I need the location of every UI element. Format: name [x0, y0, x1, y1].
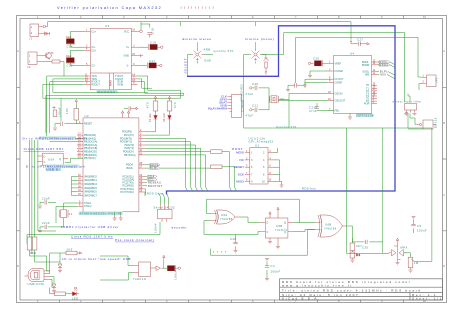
resistor R4 — [146, 96, 158, 111]
global label BLML2 — [150, 167, 161, 170]
svg-text:SCK: SCK — [238, 173, 245, 177]
global label SDA — [148, 175, 158, 178]
capacitor C23 — [286, 82, 328, 92]
svg-text:GND: GND — [204, 59, 211, 63]
svg-text:100nF: 100nF — [417, 229, 427, 233]
capacitor C4 — [265, 258, 281, 281]
global label SCL — [148, 178, 158, 181]
svg-text:RDS Data: RDS Data — [147, 192, 163, 196]
svg-text:detect input filter: detect input filter — [393, 99, 422, 103]
svg-text:1K to inform host "low speed": 1K to inform host "low speed" USB — [62, 257, 131, 261]
wire loopback R2 — [43, 79, 152, 98]
svg-text:100uF: 100uF — [174, 270, 178, 280]
labels U1 left — [234, 151, 245, 184]
svg-text:C20: C20 — [252, 82, 258, 86]
gate U8 — [133, 262, 164, 281]
wires bus area — [262, 33, 422, 102]
svg-text:RX LED: RX LED — [163, 113, 166, 122]
svg-text:HOST: HOST — [232, 147, 243, 151]
svg-text:PLL clock (internal): PLL clock (internal) — [115, 238, 154, 242]
global label RDDA — [377, 64, 390, 67]
green loop synchro — [244, 55, 432, 129]
transistor T2 — [264, 55, 269, 75]
resistor R16 — [408, 257, 419, 272]
svg-text:USB D-: USB D- — [46, 168, 60, 172]
svg-text:TX LED: TX LED — [149, 113, 152, 122]
svg-text:47nF: 47nF — [309, 109, 317, 113]
crystal X2 — [269, 93, 289, 128]
svg-text:(PA1)RBC1: (PA1)RBC1 — [84, 179, 97, 182]
wires gate — [100, 256, 134, 280]
svg-text:C2-: C2- — [91, 65, 95, 68]
connector J1 — [29, 24, 43, 41]
global label BOOTINT — [148, 185, 163, 188]
svg-text:(PA2)RBC4: (PA2)RBC4 — [84, 183, 97, 186]
resistor R9 led — [50, 288, 73, 296]
vcc arrows above U2 — [121, 111, 123, 118]
capacitor C30 — [352, 238, 382, 250]
svg-text:U2: U2 — [85, 114, 89, 118]
wires mpx — [347, 128, 432, 261]
svg-text:1K5: 1K5 — [67, 248, 73, 252]
svg-text:Sheet: 1/1: Sheet: 1/1 — [412, 297, 443, 301]
svg-text:1: 1 — [31, 25, 33, 29]
mpx switch Q3 — [389, 238, 407, 265]
svg-text:Verifier polarisation Capa MAX: Verifier polarisation Capa MAX232 — [57, 5, 162, 10]
ground mid — [303, 83, 307, 87]
svg-text:C5: C5 — [417, 224, 421, 228]
wire U6B out — [348, 226, 353, 242]
svg-text:GPT/2138: GPT/2138 — [357, 113, 375, 117]
svg-text:C4: C4 — [271, 264, 275, 268]
svg-text:SYNCHRO: SYNCHRO — [239, 84, 243, 101]
zener D5 — [52, 283, 56, 293]
svg-text:U4: U4 — [350, 52, 354, 56]
svg-text:V+: V+ — [126, 46, 130, 49]
svg-text:C27: C27 — [357, 38, 363, 42]
svg-text:C30: C30 — [362, 246, 368, 250]
ground U4 left — [348, 115, 352, 119]
svg-text:Q: Q — [284, 231, 286, 234]
svg-text:C14: C14 — [67, 45, 73, 49]
svg-text:C16: C16 — [150, 41, 156, 45]
power flag P1 — [43, 25, 48, 27]
green loop bottom — [211, 230, 315, 256]
op IC U4 coder — [328, 52, 377, 118]
capacitor C21 — [246, 104, 270, 118]
svg-text:decoder: decoder — [172, 226, 188, 230]
svg-text:USB(CON): USB(CON) — [28, 282, 45, 286]
svg-text:2: 2 — [31, 31, 33, 35]
svg-text:RESET: RESET — [234, 165, 244, 169]
small part near reset — [53, 106, 56, 109]
svg-text:RESET: RESET — [84, 123, 93, 126]
svg-text:Externe stereo: Externe stereo — [183, 37, 212, 41]
capacitor C11 — [38, 197, 56, 209]
svg-text:(PA4)RBC5: (PA4)RBC5 — [84, 187, 97, 190]
svg-text:Synchro 57K: Synchro 57K — [276, 125, 297, 129]
vcc arrow U8 — [163, 255, 165, 268]
svg-text:OSCOUT: OSCOUT — [335, 100, 346, 103]
capacitor C10 — [124, 106, 138, 110]
svg-text:(PA0)RBC0: (PA0)RBC0 — [84, 175, 97, 178]
svg-text:XTAL2: XTAL2 — [84, 205, 92, 208]
svg-text:BODR: BODR — [362, 64, 369, 67]
usb connector — [25, 269, 50, 287]
svg-text:!!!!!!!!!!: !!!!!!!!!! — [181, 5, 217, 10]
svg-text:ARB: ARB — [204, 48, 211, 52]
svg-text:BOOTINT: BOOTINT — [148, 185, 163, 188]
led RX — [145, 111, 171, 135]
svg-text:U6B: U6B — [325, 223, 332, 227]
global label RESEAU — [148, 182, 161, 185]
capacitor C20 — [246, 82, 270, 110]
bus entries right — [387, 62, 395, 79]
svg-text:C: C — [443, 193, 445, 197]
svg-text:(PA7)RBC7: (PA7)RBC7 — [84, 194, 97, 197]
svg-text:C28: C28 — [230, 237, 236, 241]
svg-text:Clock RDS 1187.5 Hz: Clock RDS 1187.5 Hz — [71, 234, 113, 238]
svg-text:470: 470 — [146, 102, 150, 108]
U1 right wires — [273, 148, 282, 184]
svg-text:FILTER: FILTER — [335, 70, 344, 73]
svg-text:BD135: BD135 — [434, 117, 438, 128]
connector U1 isp — [245, 144, 273, 185]
svg-text:D: D — [443, 264, 445, 268]
svg-text:BLML: BLML — [127, 167, 134, 170]
ground GND U3 — [137, 54, 143, 57]
capacitor C27 top — [353, 38, 370, 47]
no connect marks — [213, 251, 227, 254]
svg-text:1M: 1M — [414, 261, 419, 265]
svg-text:C: C — [267, 231, 269, 234]
capacitor C16 — [137, 41, 163, 51]
connector jack internal — [249, 42, 262, 64]
led TX — [145, 111, 157, 132]
wires U4 left — [278, 71, 328, 101]
svg-text:U1: U1 — [255, 144, 259, 148]
filter block FL1 — [405, 104, 417, 113]
capacitor C12 — [38, 221, 56, 233]
svg-text:SELECT: SELECT — [184, 58, 188, 74]
wire long mid rails — [43, 90, 184, 133]
svg-text:10K: 10K — [65, 108, 69, 114]
svg-text:U5B: U5B — [276, 224, 283, 228]
svg-text:D4: D4 — [356, 253, 360, 257]
svg-text:C15: C15 — [67, 64, 73, 68]
capacitor C13 — [53, 122, 76, 131]
usb wires — [30, 253, 61, 288]
wires U2 PA rows — [72, 177, 78, 196]
diode D4 — [350, 251, 360, 263]
svg-text:C26: C26 — [313, 57, 319, 61]
resistor R6 — [211, 150, 223, 154]
svg-text:10uF: 10uF — [66, 55, 72, 58]
capacitor C19 — [309, 103, 319, 113]
svg-text:100nF: 100nF — [271, 270, 281, 274]
global label RDCL — [377, 61, 390, 64]
blue labels CLK bundle — [208, 95, 228, 111]
svg-text:RDS bus: RDS bus — [302, 187, 316, 191]
svg-text:MAX: MAX — [108, 80, 112, 86]
svg-text:FBL: FBL — [335, 110, 340, 113]
transistor T3 — [41, 53, 51, 60]
svg-text:V-: V- — [127, 64, 130, 67]
grounds under U2 — [113, 215, 117, 220]
svg-text:10uF: 10uF — [66, 36, 72, 39]
svg-text:R2IN: R2IN — [118, 83, 124, 86]
svg-text:74AC86: 74AC86 — [324, 227, 337, 231]
svg-text:ARI: ARI — [365, 74, 369, 77]
svg-text:GPI_ATmega32: GPI_ATmega32 — [249, 139, 274, 143]
crystal X1 — [56, 203, 77, 227]
svg-text:VREF: VREF — [335, 62, 342, 65]
svg-text:JP1: JP1 — [435, 77, 439, 83]
svg-text:47pF: 47pF — [246, 114, 254, 118]
svg-text:100nF: 100nF — [154, 223, 158, 233]
title block — [280, 279, 443, 300]
svg-text:74AC86: 74AC86 — [220, 217, 233, 221]
global label RDDA2 — [150, 164, 161, 167]
svg-text:16MHz crystal for USB driver: 16MHz crystal for USB driver — [61, 225, 119, 229]
RDS bus — [167, 26, 396, 195]
wires U2 lower right to labels — [145, 177, 147, 197]
svg-text:MISO: MISO — [236, 179, 245, 183]
svg-text:VCC: VCC — [124, 30, 129, 33]
svg-text:D: D — [267, 222, 269, 225]
svg-text:MXI: MXI — [381, 74, 387, 77]
resistor R2 — [30, 140, 56, 262]
capacitor C32 — [411, 216, 427, 233]
svg-text:68R: 68R — [30, 251, 36, 255]
svg-text:KiCad E.D.A.: KiCad E.D.A. — [282, 297, 321, 301]
svg-text:J2: J2 — [27, 65, 31, 69]
svg-text:MAX232: MAX232 — [98, 90, 116, 94]
svg-text:22pF: 22pF — [42, 221, 50, 225]
svg-text:MOSI: MOSI — [236, 151, 244, 155]
resistor R5 — [167, 96, 177, 111]
svg-text:U6A: U6A — [221, 213, 228, 217]
resistor R3 reset pullup — [65, 99, 83, 124]
resistor R7 — [160, 167, 211, 169]
capacitor C15 — [66, 50, 84, 67]
svg-text:(PA6)RBC6: (PA6)RBC6 — [84, 191, 97, 194]
power vdd — [350, 40, 353, 44]
svg-text:D+ to INPUT(200k(comp)) (ph D+: D+ to INPUT(200k(comp)) (ph D+ — [23, 136, 89, 140]
capacitor C17 — [137, 59, 162, 69]
wire row R1 — [145, 151, 211, 153]
svg-text:47pF: 47pF — [246, 92, 254, 96]
wires U5B — [204, 199, 315, 234]
svg-text:C17: C17 — [149, 59, 155, 63]
svg-text:470: 470 — [173, 102, 177, 108]
capacitor C33 polarized — [164, 265, 181, 280]
svg-text:22pF: 22pF — [42, 197, 50, 201]
wire top long — [48, 22, 351, 40]
svg-text:X2: X2 — [280, 97, 284, 101]
wire T1OUT right — [137, 76, 180, 90]
op IC U3 MAX232 — [84, 24, 137, 94]
global label MXI — [377, 74, 386, 77]
wire R1IN right — [137, 82, 183, 94]
micro U2 — [77, 114, 145, 215]
jumper JP1 — [422, 75, 439, 87]
transistor Q2 right — [415, 120, 436, 129]
svg-text:D: D — [44, 156, 46, 159]
svg-text:OSCIN: OSCIN — [335, 92, 343, 95]
flipflop U5B — [260, 207, 293, 249]
wire RXD to U2 — [50, 82, 85, 142]
resistor R14 — [350, 242, 362, 251]
svg-text:Interne (mono): Interne (mono) — [245, 37, 274, 41]
svg-text:X1: X1 — [69, 212, 73, 216]
svg-text:GND: GND — [124, 55, 130, 58]
svg-text:synchro 57K: synchro 57K — [214, 49, 234, 53]
svg-text:MPX: MPX — [401, 246, 408, 250]
svg-text:PC7(TOSC): PC7(TOSC) — [121, 191, 135, 194]
diode D1 — [42, 32, 50, 36]
svg-text:POR: POR — [364, 103, 370, 106]
svg-text:C2+: C2+ — [91, 49, 96, 52]
svg-text:R2OUT: R2OUT — [91, 83, 100, 86]
capacitor C28 — [230, 235, 238, 253]
connector jack external — [191, 42, 204, 64]
capacitor C18 — [141, 24, 155, 38]
capacitor C26 polarized — [308, 57, 328, 67]
svg-text:A: A — [443, 49, 445, 53]
wires into U6A — [204, 199, 299, 234]
svg-text:U3: U3 — [105, 24, 109, 28]
svg-text:100nF: 100nF — [58, 107, 62, 117]
svg-text:C1+: C1+ — [91, 30, 96, 33]
svg-text:Q: Q — [59, 158, 61, 161]
label D- uplink — [46, 165, 79, 168]
zener D6 — [58, 262, 62, 273]
svg-text:74HC1G: 74HC1G — [133, 277, 146, 281]
svg-text:BLML: BLML — [150, 167, 159, 170]
power VCC circle — [137, 30, 142, 33]
svg-text:COMP: COMP — [335, 81, 343, 84]
svg-text:U5A: U5A — [48, 158, 55, 162]
wire TXD to U2 — [47, 76, 85, 138]
svg-text:A: A — [17, 49, 19, 53]
svg-text:www.g.lenocchio.free.fr: www.g.lenocchio.free.fr — [282, 284, 353, 288]
svg-text:2: 2 — [29, 60, 31, 64]
svg-text:B: B — [443, 121, 445, 125]
svg-text:J1: J1 — [29, 37, 33, 41]
svg-text:NC: NC — [240, 158, 245, 162]
svg-text:B: B — [17, 121, 19, 125]
connector J3 — [230, 95, 245, 118]
svg-text:RDDA: RDDA — [380, 64, 389, 67]
svg-text:D: D — [17, 264, 19, 268]
xor U6A — [211, 210, 240, 224]
wire row y234 — [27, 222, 162, 244]
svg-text:LED: LED — [72, 297, 79, 301]
wires U2 right rows to verticals — [145, 138, 206, 155]
svg-text:PB7(OC2): PB7(OC2) — [124, 154, 136, 157]
xor U6B — [315, 215, 348, 237]
svg-text:1: 1 — [29, 54, 31, 58]
capacitor C14 — [66, 31, 84, 48]
svg-text:C18: C18 — [151, 28, 155, 34]
ground U1 — [280, 184, 284, 187]
connector J2 — [27, 52, 41, 69]
label D+ input — [39, 136, 76, 139]
svg-text:PB7(SCK): PB7(SCK) — [84, 157, 96, 160]
resistor R1 — [27, 140, 32, 256]
global label BLPL — [377, 71, 388, 74]
resistor R8 1K5 — [60, 248, 82, 263]
svg-text:C21: C21 — [252, 104, 258, 108]
wire row rdda — [145, 164, 149, 166]
svg-text:Q: Q — [284, 222, 286, 225]
flipflop U5A — [37, 153, 68, 165]
resistor R20 — [52, 60, 60, 63]
eeprom U7 — [154, 193, 176, 233]
svg-text:C: C — [17, 193, 19, 197]
led LED1 — [72, 287, 79, 301]
svg-text:INLAY/WARM: INLAY/WARM — [208, 107, 228, 111]
synchro loop wires — [383, 114, 432, 262]
